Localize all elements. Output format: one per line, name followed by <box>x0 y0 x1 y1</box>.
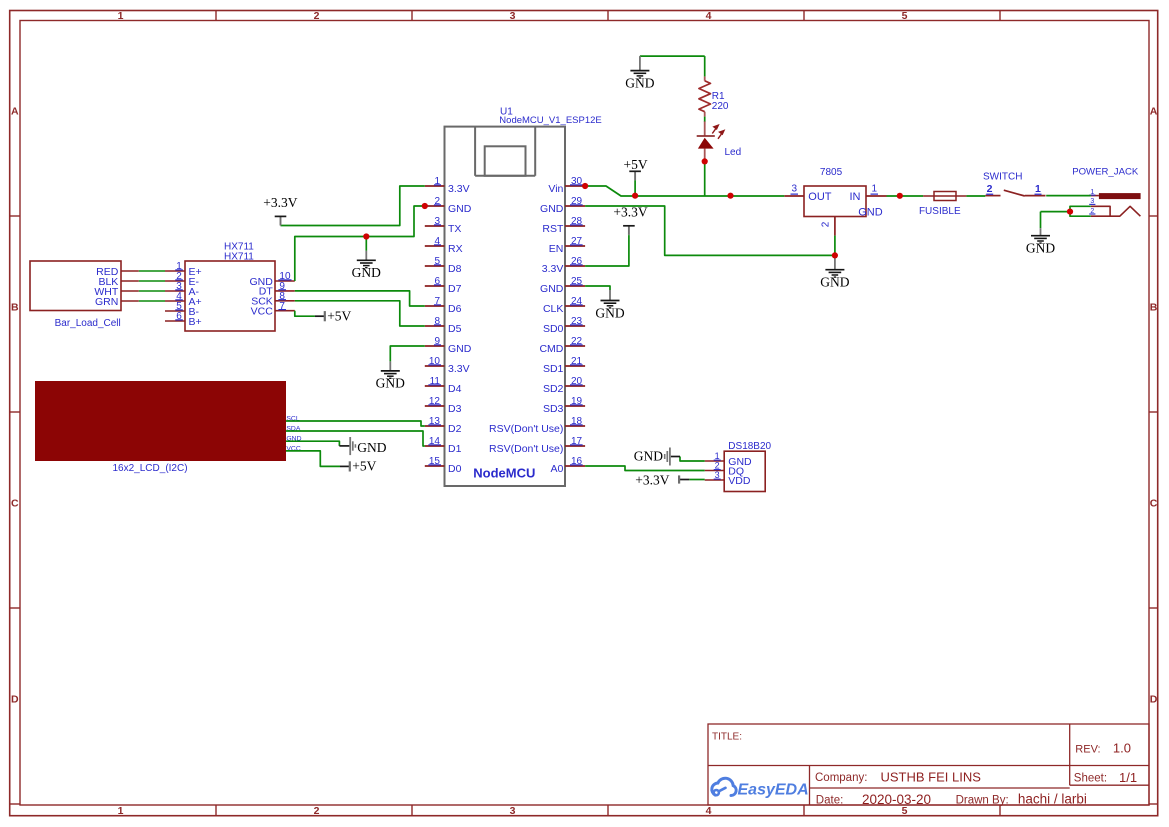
svg-text:5: 5 <box>434 256 440 267</box>
svg-text:7: 7 <box>279 301 285 312</box>
svg-text:13: 13 <box>429 416 441 427</box>
svg-text:1: 1 <box>118 805 124 817</box>
svg-text:10: 10 <box>429 356 441 367</box>
svg-text:hachi / larbi: hachi / larbi <box>1018 792 1087 807</box>
svg-text:GND: GND <box>352 265 381 280</box>
svg-text:16: 16 <box>571 456 583 467</box>
svg-text:RSV(Don't Use): RSV(Don't Use) <box>489 423 563 435</box>
svg-text:1: 1 <box>118 10 124 22</box>
svg-text:SD2: SD2 <box>543 383 564 395</box>
svg-text:A: A <box>11 106 19 118</box>
svg-text:2: 2 <box>821 221 832 227</box>
svg-text:+5V: +5V <box>327 308 351 323</box>
svg-text:NodeMCU_V1_ESP12E: NodeMCU_V1_ESP12E <box>499 115 601 126</box>
svg-text:22: 22 <box>571 336 583 347</box>
svg-text:+3.3V: +3.3V <box>635 473 669 488</box>
svg-text:7805: 7805 <box>820 167 843 178</box>
svg-text:25: 25 <box>571 276 583 287</box>
svg-text:Sheet:: Sheet: <box>1074 773 1107 785</box>
svg-text:D1: D1 <box>448 443 462 455</box>
svg-text:27: 27 <box>571 236 583 247</box>
svg-text:21: 21 <box>571 356 583 367</box>
svg-text:2: 2 <box>314 10 320 22</box>
svg-text:24: 24 <box>571 296 583 307</box>
svg-text:Drawn By:: Drawn By: <box>956 794 1009 806</box>
svg-text:3.3V: 3.3V <box>448 183 470 195</box>
svg-text:GND: GND <box>376 376 405 391</box>
svg-text:C: C <box>1150 498 1158 510</box>
svg-text:GND: GND <box>540 283 564 295</box>
svg-text:20: 20 <box>571 376 583 387</box>
svg-text:SWITCH: SWITCH <box>983 171 1022 182</box>
svg-text:12: 12 <box>429 396 441 407</box>
svg-text:26: 26 <box>571 256 583 267</box>
svg-text:+5V: +5V <box>352 458 376 473</box>
svg-text:+3.3V: +3.3V <box>613 204 647 219</box>
svg-text:GND: GND <box>1026 241 1055 256</box>
svg-text:SD1: SD1 <box>543 363 564 375</box>
svg-text:FUSIBLE: FUSIBLE <box>919 206 961 217</box>
svg-text:6: 6 <box>434 276 440 287</box>
svg-text:GND: GND <box>540 203 564 215</box>
svg-text:3: 3 <box>434 216 440 227</box>
svg-text:SD0: SD0 <box>543 323 564 335</box>
svg-text:6: 6 <box>176 311 182 322</box>
svg-text:1/1: 1/1 <box>1119 770 1137 785</box>
svg-text:Vin: Vin <box>548 183 563 195</box>
svg-text:TITLE:: TITLE: <box>712 732 742 743</box>
svg-text:29: 29 <box>571 196 583 207</box>
svg-text:2: 2 <box>987 183 993 195</box>
svg-text:14: 14 <box>429 436 441 447</box>
svg-text:HX711: HX711 <box>224 251 254 262</box>
svg-text:D7: D7 <box>448 283 462 295</box>
svg-text:D5: D5 <box>448 323 462 335</box>
svg-text:4: 4 <box>706 10 712 22</box>
svg-text:4: 4 <box>434 236 440 247</box>
svg-text:3: 3 <box>791 184 797 195</box>
svg-text:VCC: VCC <box>251 306 274 318</box>
svg-text:3: 3 <box>510 10 516 22</box>
svg-text:16x2_LCD_(I2C): 16x2_LCD_(I2C) <box>113 463 188 474</box>
svg-text:4: 4 <box>706 805 712 817</box>
svg-text:+5V: +5V <box>624 157 648 172</box>
svg-text:8: 8 <box>434 316 440 327</box>
svg-text:3: 3 <box>510 805 516 817</box>
svg-text:B: B <box>11 302 19 314</box>
svg-text:GRN: GRN <box>95 296 118 308</box>
svg-text:1: 1 <box>872 184 878 195</box>
svg-text:3.3V: 3.3V <box>542 263 564 275</box>
svg-text:D0: D0 <box>448 463 462 475</box>
svg-text:OUT: OUT <box>808 191 832 203</box>
svg-text:11: 11 <box>430 376 441 387</box>
svg-text:2: 2 <box>314 805 320 817</box>
svg-text:30: 30 <box>571 176 583 187</box>
svg-text:GND: GND <box>625 75 654 90</box>
svg-text:D: D <box>11 694 19 706</box>
svg-text:GND: GND <box>634 448 663 463</box>
svg-text:REV:: REV: <box>1075 743 1100 755</box>
svg-text:GND: GND <box>595 305 624 320</box>
svg-text:RX: RX <box>448 243 463 255</box>
svg-text:18: 18 <box>571 416 583 427</box>
svg-text:1: 1 <box>434 176 440 187</box>
svg-text:9: 9 <box>434 336 440 347</box>
svg-text:D8: D8 <box>448 263 462 275</box>
svg-text:2: 2 <box>434 196 440 207</box>
svg-text:7: 7 <box>434 296 440 307</box>
svg-text:B+: B+ <box>189 316 202 328</box>
svg-text:1.0: 1.0 <box>1113 741 1131 756</box>
svg-text:23: 23 <box>571 316 583 327</box>
svg-text:DS18B20: DS18B20 <box>728 441 771 452</box>
svg-text:CMD: CMD <box>539 343 563 355</box>
svg-text:B: B <box>1150 302 1158 314</box>
svg-text:GND: GND <box>357 440 386 455</box>
svg-text:2020-03-20: 2020-03-20 <box>862 792 931 807</box>
svg-text:GND: GND <box>858 207 883 219</box>
svg-text:28: 28 <box>571 216 583 227</box>
svg-text:USTHB FEI LINS: USTHB FEI LINS <box>881 769 982 784</box>
svg-text:D4: D4 <box>448 383 462 395</box>
svg-text:+3.3V: +3.3V <box>263 195 297 210</box>
svg-text:220: 220 <box>712 101 729 112</box>
svg-text:RST: RST <box>542 223 564 235</box>
svg-text:C: C <box>11 498 19 510</box>
svg-text:19: 19 <box>571 396 583 407</box>
svg-text:5: 5 <box>902 10 908 22</box>
svg-text:15: 15 <box>429 456 441 467</box>
svg-text:VDD: VDD <box>728 475 751 487</box>
svg-text:GND: GND <box>448 203 472 215</box>
svg-text:EasyEDA: EasyEDA <box>738 782 809 799</box>
svg-text:D6: D6 <box>448 303 462 315</box>
svg-text:A0: A0 <box>551 463 564 475</box>
svg-text:3.3V: 3.3V <box>448 363 470 375</box>
svg-text:Date:: Date: <box>816 795 844 807</box>
svg-text:TX: TX <box>448 223 461 235</box>
svg-text:EN: EN <box>549 243 564 255</box>
svg-text:GND: GND <box>448 343 472 355</box>
svg-text:CLK: CLK <box>543 303 563 315</box>
svg-text:Company:: Company: <box>815 772 867 784</box>
svg-text:Led: Led <box>725 147 742 158</box>
svg-text:IN: IN <box>850 191 861 203</box>
svg-text:D2: D2 <box>448 423 462 435</box>
svg-text:GND: GND <box>820 275 849 290</box>
svg-text:Bar_Load_Cell: Bar_Load_Cell <box>55 318 121 329</box>
svg-text:1: 1 <box>1035 183 1041 195</box>
svg-text:17: 17 <box>571 436 583 447</box>
svg-text:RSV(Don't Use): RSV(Don't Use) <box>489 443 563 455</box>
svg-text:NodeMCU: NodeMCU <box>473 466 535 481</box>
svg-text:SD3: SD3 <box>543 403 564 415</box>
svg-text:A: A <box>1150 106 1158 118</box>
svg-text:D: D <box>1150 694 1158 706</box>
svg-text:D3: D3 <box>448 403 462 415</box>
svg-text:POWER_JACK: POWER_JACK <box>1072 166 1139 177</box>
